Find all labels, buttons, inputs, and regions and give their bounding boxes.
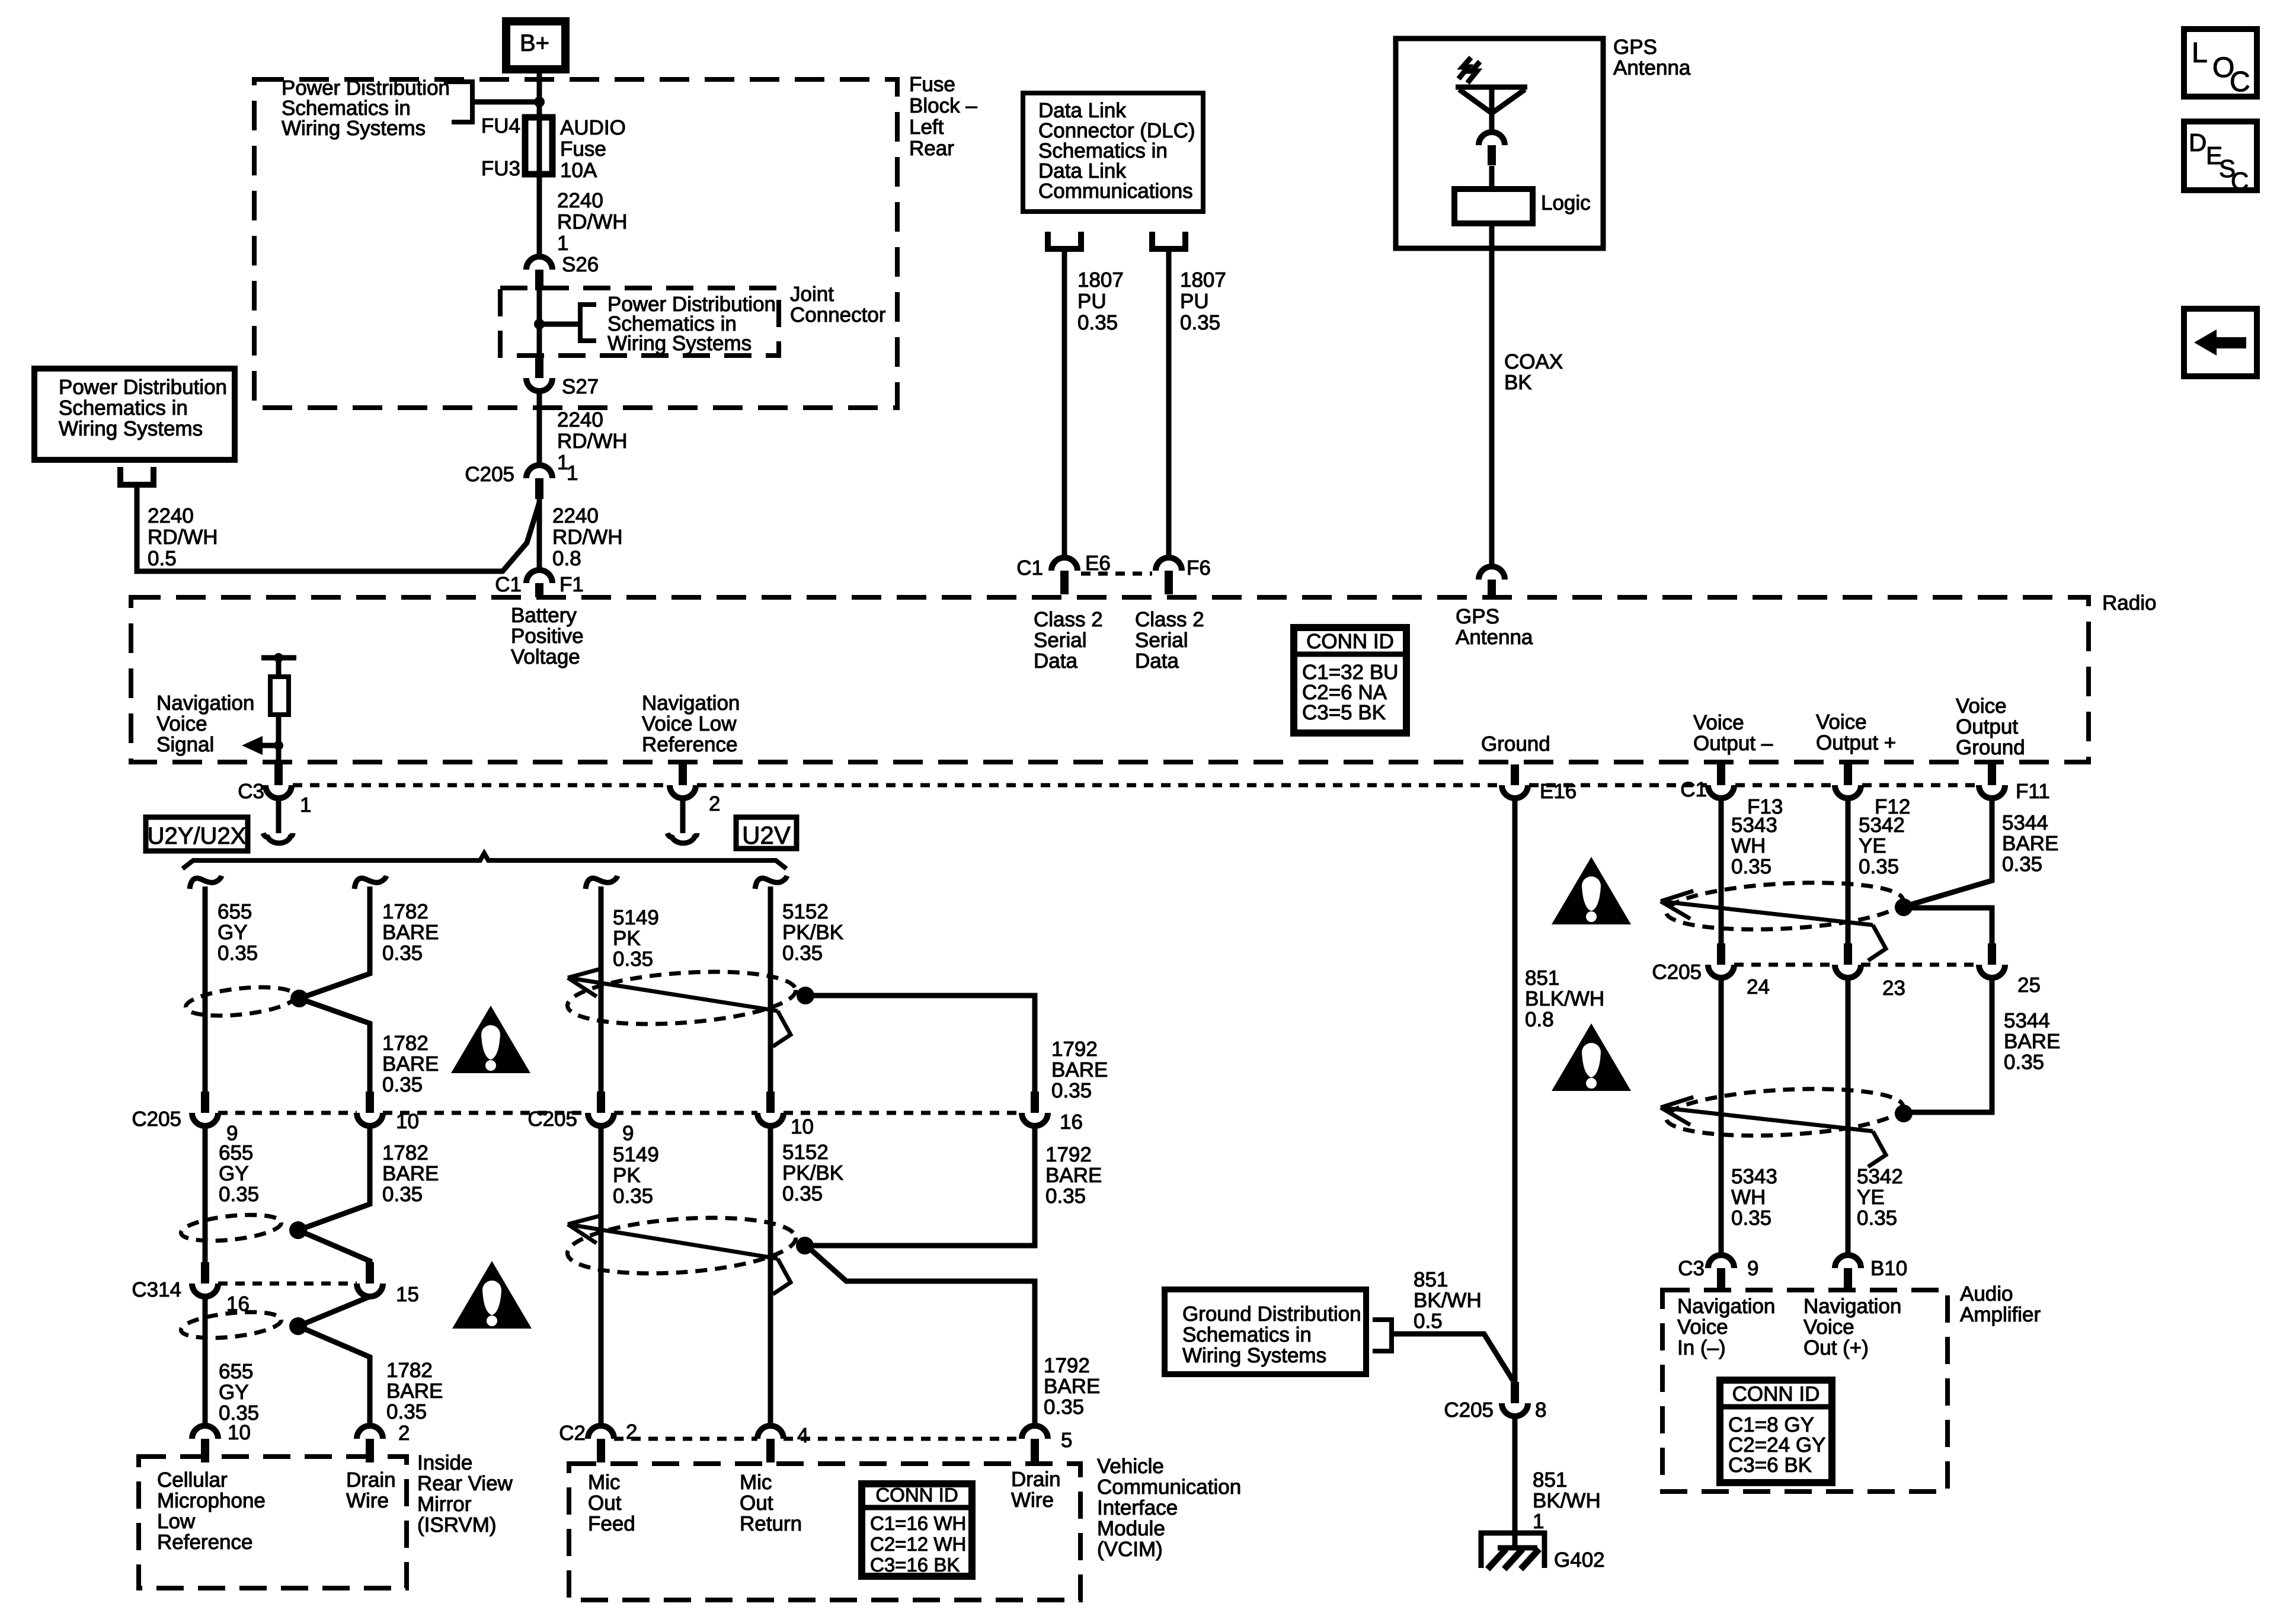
svg-text:Voice: Voice xyxy=(1677,1316,1728,1339)
wire 5344 from splice to C205 pin 25 xyxy=(1904,908,1992,943)
joint connector dashed box xyxy=(500,288,779,356)
svg-text:PU: PU xyxy=(1180,290,1209,313)
radio CONN ID box xyxy=(1294,628,1406,733)
svg-text:Radio: Radio xyxy=(2102,591,2156,615)
svg-text:PU: PU xyxy=(1077,290,1107,313)
wire 5152 PK/BK 0.35 upper xyxy=(768,886,773,1092)
svg-text:Audio: Audio xyxy=(1960,1282,2013,1305)
svg-text:Vehicle: Vehicle xyxy=(1097,1455,1164,1478)
svg-text:BARE: BARE xyxy=(1044,1375,1100,1398)
twisted pair ellipse left upper xyxy=(184,982,297,1020)
shield arrow middle lower xyxy=(568,1224,778,1259)
svg-text:Feed: Feed xyxy=(588,1512,635,1535)
svg-text:C2=12 WH: C2=12 WH xyxy=(870,1533,966,1555)
junction dot nav voice signal xyxy=(274,741,283,750)
svg-text:655: 655 xyxy=(218,900,252,923)
svg-text:0.35: 0.35 xyxy=(613,1185,653,1208)
svg-text:C1: C1 xyxy=(1680,778,1707,801)
svg-text:WH: WH xyxy=(1731,1186,1766,1209)
svg-text:C3: C3 xyxy=(1678,1257,1705,1280)
svg-text:15: 15 xyxy=(396,1283,419,1306)
svg-text:655: 655 xyxy=(219,1360,253,1383)
svg-text:4: 4 xyxy=(797,1424,808,1447)
note bracket xyxy=(444,82,472,122)
svg-text:5344: 5344 xyxy=(2002,811,2048,834)
svg-text:GY: GY xyxy=(218,921,248,944)
svg-text:Wire: Wire xyxy=(346,1489,389,1512)
connector C3 pin 9 amp xyxy=(1708,1255,1734,1268)
U2Y/U2X box xyxy=(146,817,248,851)
splice S26 xyxy=(526,257,552,270)
svg-text:2240: 2240 xyxy=(148,504,194,527)
svg-text:851: 851 xyxy=(1525,966,1559,990)
ground G402 xyxy=(1479,1531,1547,1536)
svg-text:0.35: 0.35 xyxy=(1044,1396,1084,1419)
svg-text:C205: C205 xyxy=(527,1108,577,1131)
svg-text:RD/WH: RD/WH xyxy=(557,210,628,233)
connector C205 pin 24 xyxy=(1717,943,1725,965)
svg-text:Battery: Battery xyxy=(511,604,577,627)
splice dot left lower xyxy=(289,1317,307,1335)
GPS antenna box xyxy=(1396,39,1603,248)
svg-text:BARE: BARE xyxy=(1051,1058,1108,1081)
svg-text:0.35: 0.35 xyxy=(386,1400,427,1423)
wire 5149 PK to C2 pin 2 xyxy=(599,1126,604,1426)
VCIM dashed box xyxy=(569,1464,1080,1600)
svg-text:S27: S27 xyxy=(562,375,599,398)
dotted connector line row A xyxy=(293,783,669,788)
svg-text:C: C xyxy=(2231,167,2249,195)
svg-text:COAX: COAX xyxy=(1504,350,1563,373)
wire 655 GY below C314 xyxy=(203,1297,208,1426)
splice dot left mid xyxy=(289,1221,307,1239)
svg-text:Voice: Voice xyxy=(156,712,207,735)
svg-text:L: L xyxy=(2192,37,2208,69)
svg-text:WH: WH xyxy=(1731,834,1766,857)
connector F11 xyxy=(1988,764,1996,785)
svg-text:Fuse: Fuse xyxy=(909,73,955,96)
svg-text:YE: YE xyxy=(1857,1186,1885,1209)
svg-text:Reference: Reference xyxy=(642,733,737,756)
svg-text:0.35: 0.35 xyxy=(1731,855,1771,878)
connector pin 10 ISRVM xyxy=(192,1426,218,1439)
svg-text:Power Distribution: Power Distribution xyxy=(59,376,227,399)
svg-text:2: 2 xyxy=(398,1422,410,1445)
dotted connector line row B xyxy=(218,1111,357,1115)
svg-text:Inside: Inside xyxy=(417,1451,472,1474)
connector C1/F1 into radio xyxy=(526,570,552,583)
svg-text:5149: 5149 xyxy=(613,906,659,929)
svg-text:0.35: 0.35 xyxy=(1859,855,1899,878)
svg-text:5149: 5149 xyxy=(613,1143,659,1166)
svg-text:Serial: Serial xyxy=(1135,629,1188,652)
svg-text:0.35: 0.35 xyxy=(1857,1206,1897,1230)
twisted pair curl 5149 xyxy=(586,876,618,889)
connector B10 amp xyxy=(1835,1255,1861,1268)
svg-text:U2Y/U2X: U2Y/U2X xyxy=(148,823,247,849)
svg-text:0.35: 0.35 xyxy=(1731,1206,1771,1230)
svg-text:10: 10 xyxy=(228,1421,251,1444)
svg-text:C1=16 WH: C1=16 WH xyxy=(870,1512,966,1534)
svg-text:10: 10 xyxy=(791,1115,814,1138)
svg-text:Navigation: Navigation xyxy=(156,692,254,715)
svg-text:5342: 5342 xyxy=(1857,1165,1903,1188)
warning symbol 2 xyxy=(452,1261,532,1329)
data link connector DLC box xyxy=(1023,93,1203,212)
LOC box xyxy=(2184,29,2257,97)
fuse block - left rear dashed box xyxy=(254,79,897,408)
shield arrow middle upper xyxy=(568,978,778,1011)
svg-text:1792: 1792 xyxy=(1051,1038,1098,1061)
svg-text:0.35: 0.35 xyxy=(2004,1051,2044,1074)
svg-text:Wiring Systems: Wiring Systems xyxy=(607,332,752,355)
svg-text:5152: 5152 xyxy=(782,1141,829,1164)
svg-text:BK/WH: BK/WH xyxy=(1414,1289,1482,1312)
connector E6 (radio C1) xyxy=(1051,558,1077,571)
svg-text:BARE: BARE xyxy=(382,1162,439,1185)
svg-text:GPS: GPS xyxy=(1613,36,1657,59)
bracket ground distribution xyxy=(1373,1320,1392,1351)
svg-text:FU3: FU3 xyxy=(481,157,520,180)
svg-text:F6: F6 xyxy=(1187,556,1211,580)
svg-text:1792: 1792 xyxy=(1045,1143,1092,1166)
wire 1792 BARE 0.35 upper branch xyxy=(805,996,1035,1092)
staple power distribution box xyxy=(120,467,154,485)
coax wire BK xyxy=(1489,223,1495,567)
svg-text:GY: GY xyxy=(219,1162,249,1185)
DLC staple right xyxy=(1152,232,1185,249)
connector C2 pin 5 xyxy=(1022,1426,1048,1439)
svg-text:CONN ID: CONN ID xyxy=(875,1484,958,1506)
connector C205 pin 8 xyxy=(1511,1382,1519,1403)
svg-text:0.35: 0.35 xyxy=(782,1182,823,1205)
wire inside joint connector xyxy=(537,290,542,357)
wire 655 GY to C314 xyxy=(203,1126,208,1262)
svg-text:Return: Return xyxy=(740,1512,802,1535)
svg-text:C3: C3 xyxy=(238,780,264,803)
svg-text:Voice: Voice xyxy=(1803,1316,1854,1339)
connector C205 pin 23 xyxy=(1844,943,1852,965)
splice dot right lower xyxy=(1895,1105,1913,1122)
svg-text:C3=6 BK: C3=6 BK xyxy=(1728,1454,1812,1477)
connector C314 pin 16 xyxy=(201,1262,209,1284)
svg-text:0.5: 0.5 xyxy=(148,547,177,570)
twisted pair curl 1782 xyxy=(354,876,386,889)
svg-text:Communications: Communications xyxy=(1038,180,1193,203)
audio amplifier dashed box xyxy=(1662,1290,1948,1492)
wire 5343 WH upper xyxy=(1719,798,1724,943)
connector E16 ground xyxy=(1511,764,1519,785)
svg-text:Out: Out xyxy=(740,1492,773,1515)
ground distribution schematics box xyxy=(1165,1289,1366,1374)
svg-text:9: 9 xyxy=(1747,1257,1758,1280)
wire 1782 from splice to C205 pin 10 xyxy=(299,998,370,1092)
svg-text:F11: F11 xyxy=(2016,780,2050,803)
branch wire 2240 RD/WH 0.5 xyxy=(137,487,539,571)
connector pin 2 ISRVM xyxy=(357,1426,383,1439)
svg-text:0.35: 0.35 xyxy=(219,1183,259,1206)
svg-text:5343: 5343 xyxy=(1731,814,1777,837)
svg-text:G402: G402 xyxy=(1554,1548,1605,1572)
connector C314 row xyxy=(218,1282,357,1286)
svg-text:Drain: Drain xyxy=(346,1468,396,1492)
wire below C3 xyxy=(276,798,282,833)
connector C205 pin 16 xyxy=(1031,1092,1039,1113)
svg-text:D: D xyxy=(2189,129,2207,156)
twisted pair ellipse right lower xyxy=(1665,1084,1904,1141)
junction dot joint connector xyxy=(534,319,545,329)
dotted connector line E6-F6 xyxy=(1081,572,1152,576)
svg-text:Interface: Interface xyxy=(1097,1496,1178,1519)
splice dot left upper xyxy=(290,990,308,1007)
svg-text:25: 25 xyxy=(2017,974,2041,997)
svg-text:Mic: Mic xyxy=(588,1471,620,1494)
wire 1782 splice3 to drain pin 2 xyxy=(298,1326,370,1426)
svg-text:0.35: 0.35 xyxy=(613,948,653,971)
svg-text:B+: B+ xyxy=(520,30,549,56)
dotted connector line row C2 xyxy=(614,1437,757,1441)
wire 1792 BARE splice to C2 pin 5 xyxy=(809,1248,1035,1426)
connector C205 pin 9 mid xyxy=(597,1092,605,1113)
connector C205 pin 10 left xyxy=(366,1092,374,1113)
svg-text:0.35: 0.35 xyxy=(382,942,423,965)
svg-text:Positive: Positive xyxy=(511,625,584,648)
svg-text:2240: 2240 xyxy=(557,189,603,212)
svg-text:BARE: BARE xyxy=(382,1052,439,1076)
wire 5343 WH lower xyxy=(1719,978,1724,1255)
wire 1782 from pin 15 to splice 3 xyxy=(298,1297,370,1326)
svg-text:10: 10 xyxy=(396,1110,419,1133)
wire 5149 PK 0.35 upper xyxy=(599,886,604,1092)
wire 851 BLK/WH 0.8 xyxy=(1512,798,1518,1382)
svg-text:1807: 1807 xyxy=(1077,268,1124,292)
svg-text:Signal: Signal xyxy=(156,733,214,756)
svg-text:Out (+): Out (+) xyxy=(1803,1336,1869,1359)
svg-text:1: 1 xyxy=(567,462,578,485)
twisted pair ellipse right upper xyxy=(1665,878,1904,935)
svg-text:0.35: 0.35 xyxy=(1180,311,1220,334)
svg-text:Output +: Output + xyxy=(1816,731,1896,754)
wire B+ to fuse FU4 xyxy=(537,73,542,119)
wire 2240 RD/WH 0.8 (C205 to C1/F1) xyxy=(537,499,542,570)
svg-text:5: 5 xyxy=(1061,1429,1072,1452)
wire 655 GY 0.35 upper xyxy=(203,886,208,1092)
wire 2240 RD/WH 1 (fuse to S26) xyxy=(537,174,542,257)
svg-text:Serial: Serial xyxy=(1034,629,1086,652)
svg-text:2: 2 xyxy=(709,792,720,815)
svg-text:Antenna: Antenna xyxy=(1613,56,1691,79)
svg-text:Navigation: Navigation xyxy=(1803,1295,1901,1318)
svg-text:Mic: Mic xyxy=(740,1471,772,1494)
amp CONN ID box xyxy=(1720,1380,1832,1483)
ISRVM dashed box xyxy=(139,1457,407,1588)
connector C205 pin 25 xyxy=(1988,943,1996,965)
twisted pair ellipse middle upper xyxy=(566,965,798,1031)
svg-text:C1: C1 xyxy=(495,573,522,596)
svg-text:Amplifier: Amplifier xyxy=(1960,1303,2041,1326)
svg-text:0.5: 0.5 xyxy=(1414,1310,1443,1333)
svg-text:U2V: U2V xyxy=(742,821,791,849)
svg-text:Logic: Logic xyxy=(1541,191,1591,215)
connector C1 (F13) xyxy=(1717,764,1725,785)
svg-text:1: 1 xyxy=(1533,1510,1544,1533)
svg-text:1: 1 xyxy=(557,232,568,255)
svg-text:Output: Output xyxy=(1956,715,2018,738)
DESC box xyxy=(2184,121,2257,190)
svg-text:F1: F1 xyxy=(559,573,584,596)
warning symbol 3 xyxy=(1552,857,1631,924)
connector C2 pin 2 xyxy=(588,1426,614,1439)
svg-text:Ground: Ground xyxy=(1956,736,2025,759)
radio dashed box xyxy=(131,597,2089,762)
svg-text:E16: E16 xyxy=(1540,780,1576,803)
shield arrow right lower xyxy=(1661,1108,1873,1131)
svg-text:8: 8 xyxy=(1535,1398,1546,1422)
note bracket joint connector xyxy=(539,322,580,327)
mating half below pin 2 xyxy=(667,833,697,843)
antenna symbol xyxy=(1456,85,1527,90)
wire 1782 splice2 to C314 pin 15 xyxy=(298,1230,370,1262)
svg-text:YE: YE xyxy=(1859,834,1886,857)
svg-text:2240: 2240 xyxy=(557,408,603,431)
svg-text:1782: 1782 xyxy=(386,1359,433,1382)
svg-text:Left: Left xyxy=(909,116,944,139)
svg-text:0.8: 0.8 xyxy=(552,547,581,570)
twisted pair ellipse left lower xyxy=(180,1308,282,1342)
connector F12 xyxy=(1844,764,1852,785)
svg-text:FU4: FU4 xyxy=(481,114,520,137)
back arrow box xyxy=(2184,309,2257,376)
radio wave strokes xyxy=(1459,57,1471,79)
twisted pair curl 655 xyxy=(190,876,222,889)
svg-text:C1: C1 xyxy=(1016,556,1043,580)
svg-text:23: 23 xyxy=(1882,977,1905,1000)
svg-text:1782: 1782 xyxy=(382,1032,428,1055)
connector C2 pin 4 xyxy=(757,1426,784,1439)
svg-text:Reference: Reference xyxy=(157,1531,252,1554)
svg-text:BK: BK xyxy=(1504,371,1532,394)
antenna connector arc xyxy=(1479,132,1505,145)
twisted pair ellipse middle lower xyxy=(565,1211,797,1281)
svg-text:Fuse: Fuse xyxy=(560,137,606,161)
wire 1807 PU 0.35 left xyxy=(1062,249,1067,558)
connector C205 pin 1 xyxy=(526,465,552,478)
svg-text:C205: C205 xyxy=(465,463,514,486)
svg-text:(ISRVM): (ISRVM) xyxy=(417,1513,497,1537)
mating half below C3 xyxy=(263,833,293,843)
svg-text:Voice: Voice xyxy=(1693,711,1744,734)
wire 5344 BARE lower xyxy=(1908,978,1992,1112)
connector C205 pin 10 mid xyxy=(766,1092,775,1113)
svg-text:In (–): In (–) xyxy=(1677,1336,1726,1359)
svg-text:CONN ID: CONN ID xyxy=(1732,1382,1820,1406)
splice S27 xyxy=(535,357,543,378)
svg-text:0.35: 0.35 xyxy=(218,942,258,965)
svg-text:RD/WH: RD/WH xyxy=(557,430,628,453)
svg-text:Wiring Systems: Wiring Systems xyxy=(59,417,203,440)
splice dot middle upper xyxy=(797,987,814,1004)
wire 5344 BARE upper xyxy=(1908,798,1992,905)
svg-text:Microphone: Microphone xyxy=(157,1489,266,1512)
svg-text:Block –: Block – xyxy=(909,94,977,117)
connector GPS antenna at radio xyxy=(1479,567,1505,580)
svg-text:0.35: 0.35 xyxy=(382,1183,423,1206)
wire 851 BK/WH 1 xyxy=(1512,1416,1518,1532)
svg-text:CONN ID: CONN ID xyxy=(1306,630,1394,653)
svg-text:0.35: 0.35 xyxy=(1045,1185,1086,1208)
svg-text:851: 851 xyxy=(1533,1468,1567,1492)
svg-text:Wire: Wire xyxy=(1011,1489,1054,1512)
svg-text:24: 24 xyxy=(1747,975,1770,998)
wire 5342 YE upper xyxy=(1846,798,1851,943)
svg-text:Rear: Rear xyxy=(909,137,954,160)
wire 1807 PU 0.35 right xyxy=(1166,249,1172,558)
twisted pair ellipse left mid xyxy=(180,1211,282,1245)
svg-text:BARE: BARE xyxy=(382,921,439,944)
svg-text:Data: Data xyxy=(1034,649,1077,673)
svg-text:GPS: GPS xyxy=(1456,605,1499,628)
svg-text:Voice Low: Voice Low xyxy=(642,712,737,735)
svg-text:1807: 1807 xyxy=(1180,268,1226,292)
svg-text:C205: C205 xyxy=(1444,1398,1494,1422)
svg-text:C3=16 BK: C3=16 BK xyxy=(870,1554,960,1576)
svg-text:0.35: 0.35 xyxy=(2002,853,2042,876)
svg-text:655: 655 xyxy=(219,1141,253,1164)
svg-text:Voice: Voice xyxy=(1816,711,1867,734)
svg-text:Voice: Voice xyxy=(1956,695,2007,718)
svg-text:(VCIM): (VCIM) xyxy=(1097,1538,1163,1561)
svg-text:C205: C205 xyxy=(132,1108,181,1131)
svg-text:Class 2: Class 2 xyxy=(1135,608,1204,631)
svg-text:2240: 2240 xyxy=(552,504,599,527)
svg-text:Schematics in: Schematics in xyxy=(1182,1323,1312,1346)
wire antenna to logic xyxy=(1489,166,1495,190)
harness brace xyxy=(183,853,786,869)
svg-text:Wiring Systems: Wiring Systems xyxy=(282,117,426,140)
svg-text:Antenna: Antenna xyxy=(1456,626,1533,649)
svg-text:5344: 5344 xyxy=(2004,1009,2050,1032)
splice dot right upper xyxy=(1895,898,1913,916)
svg-text:Voltage: Voltage xyxy=(511,645,580,668)
svg-text:851: 851 xyxy=(1414,1268,1448,1291)
svg-text:Navigation: Navigation xyxy=(642,692,740,715)
svg-text:RD/WH: RD/WH xyxy=(148,526,218,549)
svg-text:RD/WH: RD/WH xyxy=(552,526,623,549)
svg-text:Mirror: Mirror xyxy=(417,1493,472,1516)
resistor navigation voice signal xyxy=(261,655,296,661)
warning symbol 1 xyxy=(451,1006,530,1073)
logic box xyxy=(1454,189,1533,223)
svg-text:Cellular: Cellular xyxy=(157,1468,228,1492)
svg-text:Out: Out xyxy=(588,1492,622,1515)
svg-text:Connector: Connector xyxy=(790,303,886,327)
connector C314 pin 15 xyxy=(366,1262,374,1284)
splice dot middle lower xyxy=(796,1237,814,1254)
svg-text:Data: Data xyxy=(1135,649,1179,673)
svg-text:PK: PK xyxy=(613,927,641,950)
wire below pin 2 xyxy=(680,798,686,833)
svg-text:1782: 1782 xyxy=(382,1141,428,1164)
svg-text:1792: 1792 xyxy=(1044,1354,1090,1377)
wire 5152 PK/BK to C2 pin 4 xyxy=(768,1126,773,1426)
wire 1782 BARE to splice 2 xyxy=(298,1126,370,1230)
svg-text:0.35: 0.35 xyxy=(382,1073,423,1096)
svg-text:Class 2: Class 2 xyxy=(1034,608,1103,631)
DLC staple left xyxy=(1048,232,1081,249)
svg-text:0.8: 0.8 xyxy=(1525,1008,1554,1031)
svg-text:PK: PK xyxy=(613,1164,641,1187)
U2V box xyxy=(736,817,797,849)
